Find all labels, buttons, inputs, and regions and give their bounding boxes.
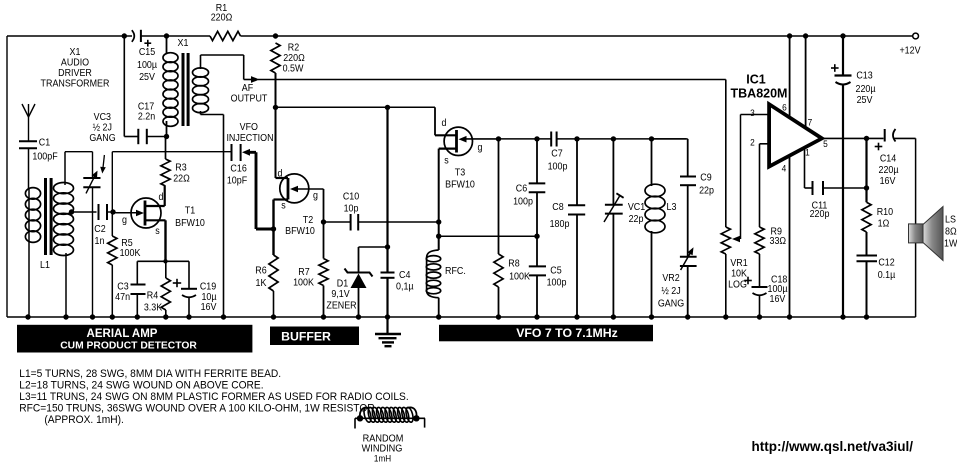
resistor R2 bbox=[271, 42, 305, 75]
svg-text:LS: LS bbox=[945, 214, 956, 226]
capacitor C6 bbox=[513, 139, 545, 236]
svg-text:T3: T3 bbox=[455, 167, 465, 179]
svg-text:5: 5 bbox=[823, 138, 828, 149]
node: X1 primary bottom / R3 top junction bbox=[164, 134, 169, 139]
svg-text:RFC.: RFC. bbox=[445, 265, 466, 277]
svg-text:L3: L3 bbox=[667, 201, 677, 213]
resistor R8 bbox=[494, 139, 531, 317]
svg-text:7: 7 bbox=[808, 117, 813, 128]
resistor R6 bbox=[255, 255, 278, 317]
wire T2 source down to R6 bbox=[272, 200, 274, 256]
svg-text:100p: 100p bbox=[547, 277, 567, 289]
svg-text:X1: X1 bbox=[178, 37, 189, 49]
svg-text:100p: 100p bbox=[513, 196, 533, 208]
pin 3 (input from volume wiper) bbox=[741, 107, 770, 118]
svg-text:VFO 7 TO 7.1MHz: VFO 7 TO 7.1MHz bbox=[516, 326, 618, 340]
svg-text:C5: C5 bbox=[550, 265, 561, 277]
svg-text:16V: 16V bbox=[770, 293, 786, 305]
svg-text:100pF: 100pF bbox=[32, 151, 57, 163]
svg-text:16V: 16V bbox=[201, 301, 217, 313]
svg-text:4: 4 bbox=[782, 163, 787, 174]
+12V supply terminal bbox=[899, 33, 921, 57]
op-amp IC1 TBA820M bbox=[731, 73, 822, 167]
potentiometer VR1 (volume) bbox=[721, 115, 747, 318]
svg-text:C14: C14 bbox=[880, 153, 897, 165]
node: T2 gate / C10 / R7 junction bbox=[321, 219, 326, 224]
capacitor C7 (series) bbox=[548, 132, 568, 173]
svg-text:+12V: +12V bbox=[899, 45, 921, 57]
svg-text:R4: R4 bbox=[147, 290, 159, 302]
capacitor C3 bbox=[115, 261, 145, 317]
svg-text:½ 2J: ½ 2J bbox=[661, 285, 681, 297]
wire AF output with arrow bbox=[244, 76, 276, 83]
label X1 audio driver transformer bbox=[41, 46, 110, 89]
svg-text:1Ω: 1Ω bbox=[878, 218, 890, 230]
resistor R10 bbox=[862, 202, 893, 255]
pin 1 (to C11) bbox=[805, 147, 810, 188]
resistor R5 bbox=[108, 212, 141, 317]
wire tank top to VC3 bbox=[65, 152, 93, 178]
node: output / R10 branch bbox=[864, 138, 869, 202]
svg-text:0,1µ: 0,1µ bbox=[396, 281, 414, 293]
svg-text:s: s bbox=[155, 225, 160, 237]
transistor T1 BFW10 bbox=[113, 186, 205, 261]
svg-text:100µ: 100µ bbox=[137, 59, 157, 71]
label AF OUTPUT bbox=[231, 82, 268, 104]
svg-text:100K: 100K bbox=[120, 247, 141, 259]
svg-text:VC1: VC1 bbox=[628, 201, 645, 213]
capacitor C15 (electrolytic, on +12V rail) bbox=[132, 30, 158, 83]
svg-text:d: d bbox=[159, 191, 164, 203]
svg-text:C15: C15 bbox=[139, 46, 155, 58]
svg-text:OUTPUT: OUTPUT bbox=[231, 93, 268, 105]
section box BUFFER bbox=[270, 327, 359, 346]
svg-text:TRANSFORMER: TRANSFORMER bbox=[41, 78, 110, 90]
node: T1 gate / C2 / R5 / injection junction bbox=[110, 209, 115, 214]
RFC random winding illustration bbox=[355, 407, 425, 464]
antenna bbox=[22, 104, 35, 141]
capacitor C11 (feedback) bbox=[805, 181, 867, 220]
wire R2 bottom to mid supply rail bbox=[275, 73, 277, 108]
svg-text:R3: R3 bbox=[175, 162, 186, 174]
svg-text:1n: 1n bbox=[95, 235, 105, 247]
resistor R1 bbox=[210, 2, 241, 40]
svg-text:ZENER: ZENER bbox=[326, 300, 356, 312]
svg-text:LOG: LOG bbox=[728, 279, 747, 291]
capacitor C14 (output electrolytic) bbox=[875, 129, 916, 187]
wire speaker return bbox=[915, 138, 917, 317]
svg-text:g: g bbox=[122, 214, 127, 226]
core of L1/L2 bbox=[44, 178, 53, 255]
node: rail / R2 top bbox=[273, 33, 278, 38]
svg-text:22p: 22p bbox=[629, 213, 644, 225]
wire ground bus bbox=[7, 316, 916, 318]
resistor R7 bbox=[293, 189, 328, 317]
svg-text:VR2: VR2 bbox=[662, 272, 679, 284]
svg-text:L1: L1 bbox=[40, 259, 50, 271]
junction dots on ground bus bbox=[25, 314, 869, 319]
capacitor C18 (electrolytic) bbox=[744, 254, 788, 317]
svg-text:GANG: GANG bbox=[658, 298, 684, 310]
resistor R9 bbox=[755, 144, 786, 254]
node: T3 source / C10 bbox=[436, 219, 441, 224]
svg-text:d: d bbox=[278, 168, 283, 180]
node: rail / X1 primary top bbox=[164, 33, 169, 38]
wire T1 source node (C3/R4/C19 tie) bbox=[137, 259, 189, 263]
wire thick VFO feed from T2 source bbox=[242, 149, 274, 229]
svg-text:220µ: 220µ bbox=[855, 83, 875, 95]
capacitor C17 bbox=[138, 101, 155, 144]
svg-text:C16: C16 bbox=[230, 163, 246, 175]
wire mid supply rail to T2/T3 drains bbox=[276, 107, 436, 135]
svg-text:BFW10: BFW10 bbox=[285, 225, 315, 237]
svg-text:BFW10: BFW10 bbox=[175, 217, 205, 229]
node: mid rail / T2 drain bbox=[273, 105, 278, 110]
node: rail / C6 bbox=[534, 136, 539, 141]
svg-text:25V: 25V bbox=[857, 94, 873, 106]
svg-text:9,1V: 9,1V bbox=[331, 288, 350, 300]
wire IC1 output bbox=[822, 136, 884, 141]
wire VFO tank rail bbox=[499, 138, 687, 140]
ground symbol bbox=[375, 317, 401, 346]
pin 4 (ground) bbox=[782, 156, 790, 317]
capacitor C13 (supply electrolytic) bbox=[831, 33, 876, 317]
node: T2 source / injection tie bbox=[271, 226, 276, 231]
svg-text:C2: C2 bbox=[94, 223, 105, 235]
node: C6/C5 midpoint bbox=[534, 234, 539, 239]
variable capacitor VR2 (tuning gang) bbox=[658, 247, 697, 317]
svg-text:GANG: GANG bbox=[89, 132, 115, 144]
svg-text:C9: C9 bbox=[700, 172, 711, 184]
transformer X1 (audio driver) bbox=[163, 36, 209, 137]
node: mid rail / zener supply branch bbox=[385, 105, 390, 110]
wire X1 secondary top to AF output bbox=[201, 55, 244, 80]
svg-text:2.2n: 2.2n bbox=[138, 111, 155, 123]
inductor L2 (secondary winding) bbox=[54, 152, 74, 317]
svg-text:0.5W: 0.5W bbox=[283, 63, 304, 75]
pin 5 (output) bbox=[823, 138, 828, 149]
wire left frame vertical bbox=[6, 36, 8, 317]
svg-text:6: 6 bbox=[782, 102, 787, 113]
svg-text:2: 2 bbox=[750, 137, 755, 148]
svg-text:BUFFER: BUFFER bbox=[281, 330, 331, 344]
node: L2 tap to C2 bbox=[69, 209, 97, 214]
svg-text:C13: C13 bbox=[856, 70, 872, 82]
svg-text:s: s bbox=[281, 200, 286, 212]
wire source to C5/C6 midpoint bbox=[439, 235, 537, 237]
svg-text:100K: 100K bbox=[509, 271, 530, 283]
svg-text:33Ω: 33Ω bbox=[770, 235, 787, 247]
transistor T3 BFW10 (VFO) bbox=[435, 117, 499, 190]
pin 7 bbox=[803, 33, 812, 127]
label VFO INJECTION bbox=[226, 121, 273, 144]
inductor L1 (aerial coil primary) bbox=[25, 188, 40, 317]
node: junction C15 left / C17 branch bbox=[122, 33, 127, 38]
capacitor C19 (electrolytic) bbox=[173, 261, 217, 317]
wire +12V top supply rail bbox=[7, 35, 913, 37]
svg-text:10pF: 10pF bbox=[227, 175, 247, 187]
svg-text:1W: 1W bbox=[944, 238, 957, 250]
svg-text:47n: 47n bbox=[115, 291, 130, 303]
svg-text:C8: C8 bbox=[552, 201, 563, 213]
wire X1 secondary bottom to ground bbox=[201, 111, 224, 317]
capacitor C12 bbox=[857, 256, 896, 318]
svg-text:g: g bbox=[313, 190, 318, 202]
capacitor C8 bbox=[550, 136, 586, 317]
svg-text:BFW10: BFW10 bbox=[445, 179, 475, 191]
svg-text:R6: R6 bbox=[255, 265, 266, 277]
capacitor C4 bbox=[381, 107, 414, 317]
svg-text:10K: 10K bbox=[731, 268, 747, 280]
svg-text:IC1: IC1 bbox=[746, 73, 766, 87]
svg-text:180p: 180p bbox=[550, 218, 570, 230]
capacitor C1 bbox=[19, 137, 58, 189]
svg-text:C6: C6 bbox=[516, 183, 527, 195]
pin 2 bbox=[750, 137, 769, 148]
section box VFO 7 TO 7.1MHz bbox=[439, 325, 653, 342]
svg-text:d: d bbox=[442, 117, 447, 129]
svg-text:220µ: 220µ bbox=[878, 164, 898, 176]
svg-text:VFO: VFO bbox=[240, 121, 258, 133]
inductor L3 bbox=[645, 136, 676, 317]
inductor RFC bbox=[426, 250, 466, 317]
svg-text:220p: 220p bbox=[810, 208, 830, 220]
svg-text:1mH: 1mH bbox=[374, 453, 391, 464]
svg-text:R10: R10 bbox=[877, 206, 893, 218]
wire zener supply link bbox=[359, 244, 391, 249]
svg-text:INJECTION: INJECTION bbox=[226, 132, 273, 144]
svg-text:C12: C12 bbox=[878, 257, 894, 269]
svg-text:C10: C10 bbox=[343, 191, 359, 203]
svg-text:10p: 10p bbox=[344, 203, 359, 215]
section box AERIAL AMP CUM PRODUCT DETECTOR bbox=[17, 325, 252, 353]
variable capacitor VC1 bbox=[604, 136, 645, 317]
wire VFO injection line into aerial tank bbox=[112, 152, 231, 212]
svg-text:http://www.qsl.net/va3iul/: http://www.qsl.net/va3iul/ bbox=[752, 439, 914, 454]
svg-text:25V: 25V bbox=[139, 71, 155, 83]
wire C17 branch (from rail down, across to X1 primary bottom) bbox=[124, 36, 166, 137]
node: gate rail / R8 bbox=[496, 136, 501, 141]
wire audio line to volume control VR1 bbox=[276, 80, 726, 228]
svg-text:3: 3 bbox=[750, 107, 755, 118]
svg-text:AERIAL AMP: AERIAL AMP bbox=[87, 328, 158, 340]
svg-text:1K: 1K bbox=[256, 277, 267, 289]
svg-text:22Ω: 22Ω bbox=[173, 173, 190, 185]
svg-text:C4: C4 bbox=[399, 269, 411, 281]
notes: coil winding data bbox=[19, 368, 408, 426]
capacitor C2 bbox=[94, 204, 113, 247]
svg-text:100K: 100K bbox=[293, 277, 314, 289]
svg-text:C1: C1 bbox=[39, 137, 50, 149]
svg-text:8Ω: 8Ω bbox=[945, 226, 957, 238]
svg-text:T2: T2 bbox=[303, 214, 313, 226]
svg-text:R8: R8 bbox=[508, 258, 519, 270]
wire rail to C9/VR2 branch bbox=[652, 139, 688, 177]
svg-text:T1: T1 bbox=[185, 205, 195, 217]
svg-text:3.3K: 3.3K bbox=[144, 302, 163, 314]
URL credit bbox=[752, 439, 914, 454]
capacitor C9 bbox=[680, 172, 714, 257]
variable capacitor VC3 (tuning gang) bbox=[83, 111, 115, 317]
svg-text:1: 1 bbox=[805, 147, 810, 158]
svg-text:220Ω: 220Ω bbox=[211, 12, 233, 24]
capacitor C10 (VFO output coupling) bbox=[324, 191, 440, 231]
svg-text:0.1µ: 0.1µ bbox=[878, 269, 896, 281]
transistor T2 BFW10 (buffer) bbox=[274, 107, 324, 237]
svg-text:s: s bbox=[444, 155, 449, 167]
capacitor C5 bbox=[529, 236, 567, 317]
svg-text:TBA820M: TBA820M bbox=[731, 87, 788, 101]
svg-text:g: g bbox=[478, 142, 483, 154]
svg-text:16V: 16V bbox=[880, 175, 896, 187]
svg-text:22p: 22p bbox=[699, 185, 714, 197]
svg-text:100p: 100p bbox=[548, 161, 568, 173]
loudspeaker LS bbox=[909, 207, 957, 261]
svg-text:CUM PRODUCT DETECTOR: CUM PRODUCT DETECTOR bbox=[60, 341, 197, 352]
capacitor C16 (VFO injection) bbox=[227, 144, 247, 187]
svg-text:C7: C7 bbox=[551, 148, 562, 160]
label L1 bbox=[40, 259, 50, 271]
wire T3 source column bbox=[438, 149, 440, 250]
node: T3 source / C5-C6 link bbox=[436, 234, 441, 239]
svg-text:(APPROX. 1mH).: (APPROX. 1mH). bbox=[44, 414, 123, 426]
zener diode D1 bbox=[326, 247, 372, 317]
resistor R3 bbox=[161, 137, 190, 187]
resistor R4 bbox=[144, 261, 171, 317]
pin 6 bbox=[782, 33, 792, 117]
